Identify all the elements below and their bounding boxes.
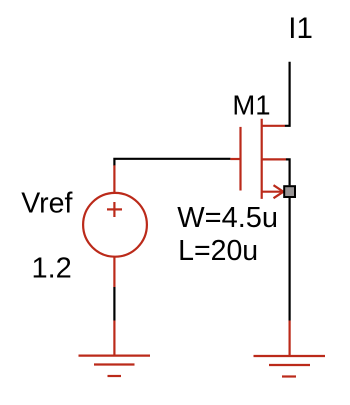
svg-text:I1: I1: [288, 12, 313, 45]
node junction square (source-bulk tie): [284, 186, 295, 197]
wire Vref bottom to ground: [113, 287, 115, 321]
ground GND1: [79, 321, 151, 377]
voltage source V1: [83, 165, 147, 287]
transistor M1: [230, 119, 286, 199]
svg-text:M1: M1: [232, 90, 270, 121]
svg-text:Vref: Vref: [21, 188, 72, 220]
svg-text:W=4.5u: W=4.5u: [177, 202, 278, 234]
svg-text:L=20u: L=20u: [178, 235, 258, 267]
wire gate net (Vref top to gate): [114, 159, 230, 166]
ground GND2: [254, 321, 326, 377]
wire source to junction: [286, 159, 290, 185]
wire junction to ground: [289, 198, 291, 321]
wire drain to I1 port: [285, 62, 290, 126]
svg-text:1.2: 1.2: [32, 253, 72, 285]
